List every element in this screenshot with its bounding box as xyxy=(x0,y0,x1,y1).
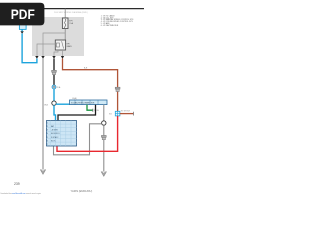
splice E4 (square with cross) xyxy=(115,111,120,116)
svg-text:TO ST RLY: TO ST RLY xyxy=(121,110,131,112)
top border line xyxy=(40,8,144,10)
internal wire relay to pin 1 xyxy=(37,44,55,56)
wire from top border to fuse xyxy=(64,9,66,18)
svg-text:1: 1 xyxy=(47,122,48,124)
svg-text:MAIN: MAIN xyxy=(67,45,73,48)
wire: green from bar xyxy=(87,105,93,111)
svg-text:7: 7 xyxy=(47,144,48,146)
svg-text:TACH: TACH xyxy=(94,109,100,112)
svg-text:2: 2 xyxy=(47,126,48,128)
svg-text:6 : W/ DAYTIME RUN: 6 : W/ DAYTIME RUN xyxy=(101,24,119,27)
pin 2 triangle (ground wire) xyxy=(41,56,44,59)
ground G2 (right) xyxy=(101,172,106,177)
relay block (gray box) xyxy=(32,17,84,56)
fuse F1 xyxy=(62,18,68,29)
wire: gray from node down to ground xyxy=(103,125,105,171)
wire: cyan U-route from connector A to relay block pin 1 xyxy=(22,33,37,62)
svg-text:Downloaded from www.Manualslib: Downloaded from www.Manualslib.com manua… xyxy=(1,193,42,195)
inline connector IH1 on black wire xyxy=(52,70,57,72)
pin 1 triangle (cyan wire) xyxy=(35,56,38,59)
svg-text:5: 5 xyxy=(47,137,48,139)
PDF badge xyxy=(0,3,44,26)
svg-text:E4: E4 xyxy=(109,113,111,115)
inline connector IE1 on red wire xyxy=(115,87,120,89)
internal wire relay to pin 3 xyxy=(54,50,58,56)
wire: black from bar to ECU table xyxy=(58,105,96,121)
svg-text:2002 MR2 WIRING DIAGRAM (EWD): 2002 MR2 WIRING DIAGRAM (EWD) xyxy=(54,11,88,14)
wire: brick red from pin 4, across and down xyxy=(63,59,118,112)
wire: long gray ground wire from pin 2 xyxy=(42,59,44,170)
wire: cyan stub from connector A xyxy=(21,29,23,31)
svg-text:239: 239 xyxy=(14,182,20,186)
wire: black from pin 3 down xyxy=(53,59,55,86)
inline connector on right gray wire xyxy=(101,135,106,137)
wire: brick branch right from splice xyxy=(120,113,134,115)
junction bar J5 xyxy=(70,100,108,105)
wire fuse to relay xyxy=(64,29,66,41)
node J1 (color change black to cyan) xyxy=(52,85,56,89)
wire: cyan to junction bar xyxy=(56,103,70,105)
wire: gray from bar down to node xyxy=(103,105,105,121)
wire: gray branch from node to ECU table bottom xyxy=(54,124,102,155)
node circle (right) xyxy=(102,121,106,125)
wire: bright red from splice to ECU table xyxy=(57,116,118,151)
node splice circle xyxy=(52,101,56,105)
wire: cyan from node J1 to node circle xyxy=(53,89,55,101)
green wire end tick xyxy=(92,109,94,112)
wire: cyan down to ECU table xyxy=(54,105,56,120)
page background xyxy=(0,0,149,198)
svg-text:E01 E02 E1: E01 E02 E1 xyxy=(51,133,60,135)
svg-text:J5(A): J5(A) xyxy=(72,97,77,100)
ECU connector table xyxy=(47,121,77,147)
pin 3 triangle (black wire) xyxy=(52,56,55,59)
relay R1 xyxy=(55,40,65,50)
pin 4 triangle (red wire) xyxy=(61,56,64,59)
svg-text:J5 JUNCTION CONNECTOR: J5 JUNCTION CONNECTOR xyxy=(71,102,95,104)
svg-text:PDF: PDF xyxy=(11,6,35,22)
internal wire relay to pin 4 xyxy=(62,50,64,56)
svg-text:YARIS (EM01Z0U): YARIS (EM01Z0U) xyxy=(71,189,93,193)
internal wire fuse line to pin 2 xyxy=(43,33,65,56)
svg-text:+B IGSW: +B IGSW xyxy=(51,130,58,132)
svg-text:4: 4 xyxy=(47,133,48,135)
legend text block xyxy=(101,14,134,27)
connector A box (cyan, under badge) xyxy=(19,24,26,30)
ground G1 (left) xyxy=(40,170,45,175)
svg-text:3: 3 xyxy=(47,130,48,132)
svg-text:6: 6 xyxy=(47,140,48,142)
connector A pin triangle xyxy=(20,31,23,34)
